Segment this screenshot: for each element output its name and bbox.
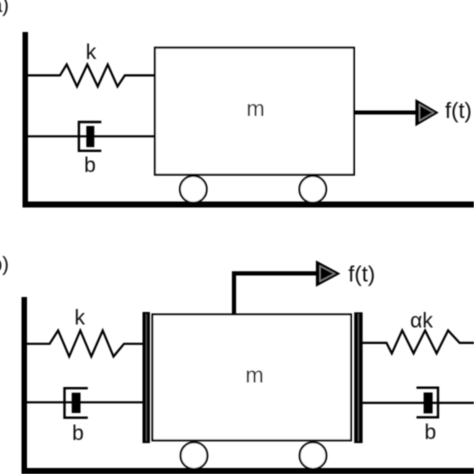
- svg-text:b: b: [425, 421, 437, 444]
- svg-text:b: b: [72, 422, 84, 445]
- svg-text:m: m: [245, 363, 263, 388]
- svg-text:(b): (b): [0, 254, 9, 276]
- svg-text:m: m: [246, 96, 264, 121]
- svg-text:k: k: [86, 41, 97, 64]
- svg-text:b: b: [84, 154, 96, 177]
- svg-text:k: k: [75, 307, 86, 330]
- svg-text:f(t): f(t): [445, 98, 472, 123]
- svg-text:αk: αk: [410, 310, 433, 333]
- svg-text:f(t): f(t): [348, 262, 375, 287]
- svg-text:(a): (a): [0, 0, 9, 17]
